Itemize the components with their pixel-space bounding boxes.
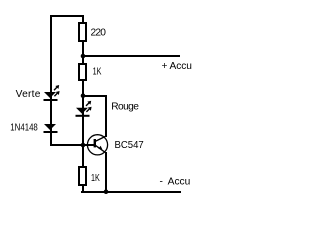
diode D2 1N4148 (44, 124, 58, 133)
svg-text:BC547: BC547 (115, 140, 145, 151)
LED D1 Verte (44, 85, 60, 101)
resistor R2 1K (79, 64, 86, 80)
svg-text:220: 220 (91, 27, 107, 38)
wire top horizontal (50, 15, 84, 17)
resistor R1 220 (79, 23, 86, 41)
wire + Accu horizontal (82, 55, 180, 57)
wire base horizontal (50, 144, 95, 146)
wire middle segment 1K to bottom resistor (82, 81, 84, 167)
wire bottom horizontal (81, 191, 181, 193)
wire middle segment above R 220 (82, 15, 84, 23)
svg-text:Rouge: Rouge (111, 101, 139, 112)
node junction emitter bottom (104, 189, 109, 194)
svg-text:1K: 1K (91, 173, 100, 184)
wire middle segment below bottom resistor (82, 185, 84, 193)
svg-text:- Accu: - Accu (160, 177, 191, 188)
wire collector vertical (105, 95, 107, 137)
svg-text:Verte: Verte (16, 89, 41, 100)
resistor R3 1K (79, 167, 86, 185)
LED D3 Rouge (76, 101, 92, 117)
wire middle segment between 220 and 1K (82, 42, 84, 64)
svg-text:1N4148: 1N4148 (10, 123, 38, 134)
svg-text:1K: 1K (93, 66, 102, 77)
wire emitter vertical (105, 152, 107, 193)
node junction base (81, 143, 86, 148)
wire node to collector horizontal (82, 95, 107, 97)
wire left vertical (50, 15, 52, 146)
transistor Q1 BC547 (87, 135, 107, 155)
node junction collector branch (81, 93, 86, 98)
node junction below 220 (81, 54, 86, 59)
svg-text:+ Accu: + Accu (162, 61, 192, 72)
